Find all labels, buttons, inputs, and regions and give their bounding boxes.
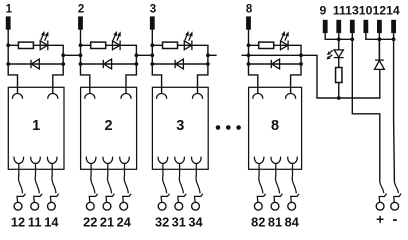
junction ch2 right-vertical/rail [135, 53, 139, 57]
relay K8 contact pin socket 81 [271, 157, 281, 164]
wire: left coil lead with jog into relay K1 [8, 64, 17, 94]
relay K1 contact pin socket 12 [14, 157, 24, 164]
junction ch2 left-vertical/rail [79, 53, 83, 57]
plug contact K2-24: curved wire, lever and socket circle [120, 176, 131, 211]
wire: diode row from input node to right vertical [81, 63, 137, 65]
wire: diode row from input node to right vertical [152, 63, 208, 65]
plug contact K8-81: curved wire, lever and socket circle [271, 176, 282, 211]
relay K2 coil pin socket (right) [121, 94, 131, 99]
relay K8 outline box [249, 87, 302, 169]
terminal block input 8 [246, 16, 251, 29]
wire: top row node to resistor/LED (row y=45.3) [81, 45, 137, 93]
relay K3 coil pin socket (left) [157, 94, 167, 99]
plug contact K1-14: curved wire, lever and socket circle [48, 176, 59, 211]
plug contact K8-84: curved wire, lever and socket circle [288, 176, 299, 211]
LED V9 (supply indicator), pointing down, arrows lower-left [334, 50, 344, 58]
LED V8 (indicator) [281, 40, 289, 50]
svg-text:8: 8 [271, 118, 279, 134]
svg-text:2: 2 [78, 4, 84, 16]
svg-text:1: 1 [32, 118, 40, 134]
junction terminal 14 / - rail [392, 37, 396, 41]
relay K8 contact pin socket 84 [288, 157, 298, 164]
resistor R8 [259, 42, 274, 48]
wire: terminal 8 down to diode row [248, 30, 250, 65]
plug contact K1-12: curved wire, lever and socket circle [14, 176, 25, 211]
junction ch3 right-vertical/diode-row [206, 62, 210, 66]
junction ch8 input/diode-row [247, 62, 251, 66]
relay K8 coil pin socket (right) [286, 94, 296, 99]
diode V3′ (freewheel) [175, 59, 183, 69]
wire: terminal 11 drop to LED branch [338, 33, 340, 50]
junction terminal 13 / + rail [350, 37, 354, 41]
wire: left coil lead with jog into relay K8 [249, 64, 258, 94]
wire: diode row from input node to right vertical [249, 63, 302, 65]
relay K2 contact pin socket 22 [86, 157, 96, 164]
wire: rail ch1 to ch2 [63, 54, 80, 56]
junction ch8 left-vertical/rail [247, 53, 251, 57]
ellipsis dots between channel 3 and 8 [216, 125, 241, 130]
terminal block input 1 [6, 16, 11, 29]
junction ch8 input/top-row [247, 43, 251, 47]
svg-text:32: 32 [155, 214, 169, 229]
svg-text:8: 8 [246, 4, 253, 16]
wire: rail ch2 to ch3 [136, 54, 152, 56]
svg-text:11: 11 [28, 214, 42, 229]
junction LED branch / common bus [337, 96, 341, 100]
plug contact K3-32: curved wire, lever and socket circle [158, 176, 169, 211]
diode V2′ (freewheel) [103, 59, 111, 69]
relay K3 coil pin socket (right) [192, 94, 202, 99]
junction terminal 11 / + rail [337, 37, 341, 41]
wire: LED to resistor R9 [338, 58, 340, 68]
diode V1′ (freewheel) [31, 59, 39, 69]
protection diode V10 (cathode up) on terminal-12 column [375, 60, 385, 69]
relay K1 coil pin socket (right) [48, 94, 58, 99]
resistor R9 (vertical) [336, 68, 342, 83]
junction ch2 input/top-row [79, 43, 83, 47]
wire: terminal 2 down to diode row [80, 30, 82, 65]
wire: rail stub right of ch3 (interrupted by ellipsis) [208, 54, 217, 56]
relay K2 contact pin socket 24 [120, 157, 130, 164]
wire: terminal 12 drop to protection diode [378, 33, 380, 60]
relay K2 outline box [81, 87, 137, 169]
plug contact K2-21: curved wire, lever and socket circle [103, 176, 114, 211]
resistor R3 [163, 42, 178, 48]
wire: terminal 3 down to diode row [151, 30, 153, 65]
relay K1 contact pin socket 14 [47, 157, 57, 164]
svg-text:+: + [376, 212, 384, 227]
diode V8′ (freewheel) [271, 59, 279, 69]
plug contact K3-34: curved wire, lever and socket circle [192, 176, 203, 211]
svg-text:34: 34 [188, 214, 203, 229]
wire: terminal 1 down to diode row [7, 30, 9, 65]
svg-text:9: 9 [320, 4, 327, 18]
svg-text:1113101214: 1113101214 [333, 4, 400, 18]
wire: diode row from input node to right vertical [8, 63, 63, 65]
svg-text:31: 31 [172, 214, 186, 229]
wire: terminal 10 drop and - group rail (10,12,14) [366, 33, 394, 40]
junction ch1 right-vertical/rail [61, 53, 65, 57]
svg-text:21: 21 [100, 214, 114, 229]
svg-text:12: 12 [11, 214, 25, 229]
svg-text:22: 22 [83, 214, 97, 229]
terminal block supply 9 [323, 20, 328, 33]
plug contact - output [391, 181, 401, 210]
svg-text:84: 84 [285, 214, 300, 229]
svg-text:2: 2 [105, 118, 113, 134]
relay K8 coil pin socket (left) [253, 94, 263, 99]
wire: resistor R9 down to bus node [338, 83, 340, 99]
relay K1 coil pin socket (left) [12, 94, 22, 99]
wire: left coil lead with jog into relay K2 [81, 64, 90, 94]
svg-text:3: 3 [150, 4, 156, 16]
wire: rail across ch8 to right section, down to bus node [249, 55, 339, 98]
wire: terminal 9 drop and + group rail (9,11,13) [325, 33, 352, 40]
terminal block supply 13 [350, 20, 355, 33]
svg-text:1: 1 [6, 4, 13, 16]
plug contact K8-82: curved wire, lever and socket circle [254, 176, 265, 211]
relay K1 contact pin socket 11 [31, 157, 41, 164]
terminal block input 2 [78, 16, 83, 29]
plug contact K1-11: curved wire, lever and socket circle [31, 176, 42, 211]
relay K3 contact pin socket 31 [175, 157, 185, 164]
svg-text:-: - [392, 212, 397, 228]
wire: common bus (line A, y=98) from rail drop to diode column, up through diode to - rail [339, 39, 380, 98]
wire: terminal 14 column down to - output [393, 33, 396, 182]
LED V1 (indicator) [40, 40, 48, 50]
wire: terminal 13 column down to + output (crosses bus, jog at y114) [352, 33, 380, 182]
wire: left coil lead with jog into relay K3 [152, 64, 161, 94]
junction ch3 input/diode-row [150, 62, 154, 66]
junction ch2 right-vertical/diode-row [135, 62, 139, 66]
svg-text:14: 14 [44, 214, 59, 229]
terminal block supply 10 [363, 20, 368, 33]
svg-text:82: 82 [251, 214, 265, 229]
junction ch1 input/diode-row [6, 62, 10, 66]
junction ch8 right-vertical/diode-row [299, 62, 303, 66]
terminal block input 3 [150, 16, 155, 29]
plug contact K3-31: curved wire, lever and socket circle [175, 176, 186, 211]
wire: top row node to resistor/LED (row y=45.3) [8, 45, 63, 93]
terminal block supply 14 [391, 20, 396, 33]
wire: top row node to resistor/LED (row y=45.3) [152, 45, 208, 93]
relay K2 contact pin socket 21 [103, 157, 113, 164]
plug contact K2-22: curved wire, lever and socket circle [86, 176, 97, 211]
terminal block supply 12 [377, 20, 382, 33]
terminal block supply 11 [336, 20, 341, 33]
junction ch8 right-vertical/rail [299, 53, 303, 57]
wire: rail stub left of ch8 [242, 54, 249, 56]
junction ch2 input/diode-row [79, 62, 83, 66]
LED V3 (indicator) [184, 40, 192, 50]
junction ch3 right-vertical/rail [206, 53, 210, 57]
relay K3 contact pin socket 32 [158, 157, 168, 164]
wire: top row node to resistor/LED (row y=45.3) [249, 45, 302, 93]
resistor R1 [18, 42, 33, 48]
junction ch3 input/top-row [150, 43, 154, 47]
svg-text:3: 3 [176, 118, 184, 134]
plug contact + output [376, 181, 386, 210]
junction ch3 left-vertical/rail [150, 53, 154, 57]
relay K8 contact pin socket 82 [254, 157, 264, 164]
junction terminal 12 / - rail [378, 37, 382, 41]
relay K2 coil pin socket (left) [85, 94, 95, 99]
resistor R2 [91, 42, 106, 48]
junction ch1 right-vertical/diode-row [61, 62, 65, 66]
svg-text:24: 24 [117, 214, 132, 229]
junction ch1 input/top-row [6, 43, 10, 47]
relay K3 contact pin socket 34 [191, 157, 201, 164]
relay K3 outline box [152, 87, 208, 169]
relay K1 outline box [8, 87, 64, 169]
svg-text:81: 81 [268, 214, 282, 229]
LED V2 (indicator) [113, 40, 121, 50]
